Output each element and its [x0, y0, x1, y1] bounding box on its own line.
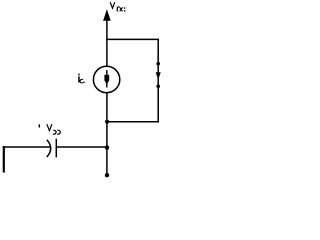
node dot on right branch (top)	[156, 62, 160, 66]
label vDD	[47, 124, 60, 134]
wire capacitor left segment	[3, 146, 50, 148]
node dot on right branch (bottom)	[156, 85, 160, 89]
label ic	[78, 74, 85, 83]
current source ic inner arrow	[104, 70, 109, 88]
junction node dot (capacitor wire joins main wire)	[105, 145, 109, 149]
current source ic circle	[93, 66, 119, 92]
wire top horizontal	[106, 38, 159, 40]
capacitor curved plate	[47, 140, 51, 157]
node VDC arrow (up)	[103, 9, 111, 21]
wire right vertical branch	[157, 39, 159, 123]
polarity tick	[39, 124, 40, 127]
bottom terminal node dot	[105, 173, 109, 177]
node VDC label	[110, 2, 125, 11]
wire left vertical (input terminal)	[3, 146, 5, 172]
wire right branch bottom horizontal	[107, 121, 159, 123]
wire capacitor right segment	[56, 146, 107, 148]
capacitor straight plate	[55, 139, 57, 158]
junction node dot (right branch joins main wire)	[105, 120, 109, 124]
wire from current source down to bottom terminal	[106, 93, 108, 177]
current direction arrow on right branch	[156, 72, 161, 80]
wire from VDC arrow down to current source	[106, 20, 108, 67]
